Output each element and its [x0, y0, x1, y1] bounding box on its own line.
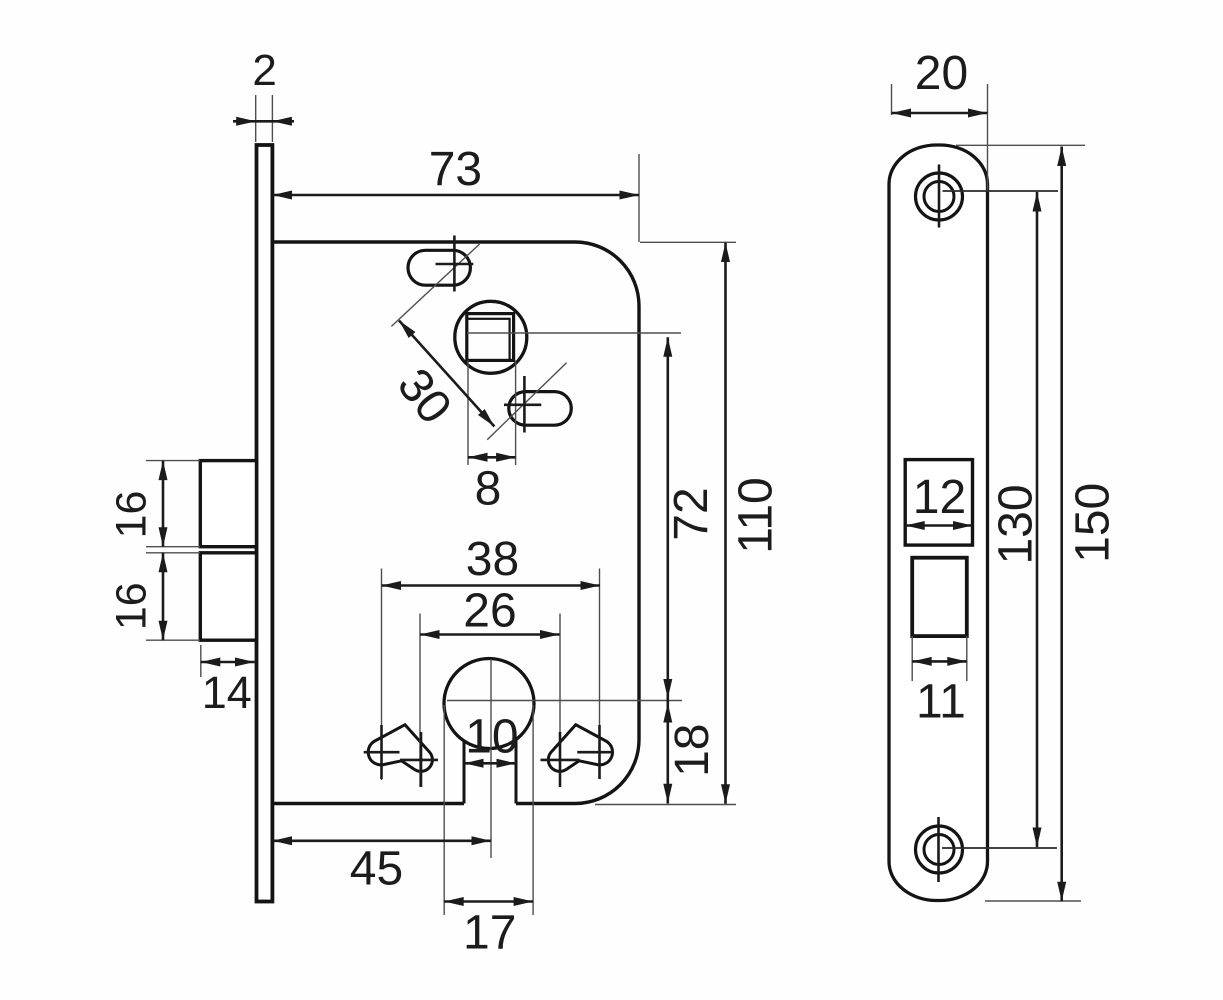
svg-text:8: 8 — [475, 463, 502, 516]
svg-text:130: 130 — [989, 484, 1042, 564]
svg-text:45: 45 — [350, 842, 403, 895]
svg-text:26: 26 — [463, 584, 516, 637]
svg-text:12: 12 — [913, 471, 966, 524]
svg-text:14: 14 — [202, 667, 252, 718]
svg-text:11: 11 — [916, 675, 966, 728]
svg-text:18: 18 — [666, 724, 719, 777]
svg-text:17: 17 — [463, 906, 516, 959]
svg-text:16: 16 — [108, 582, 156, 630]
svg-text:2: 2 — [252, 46, 276, 95]
svg-text:150: 150 — [1067, 483, 1120, 563]
svg-text:110: 110 — [730, 477, 783, 554]
svg-text:38: 38 — [466, 533, 519, 586]
svg-text:72: 72 — [665, 487, 718, 540]
svg-text:73: 73 — [429, 143, 482, 196]
svg-text:20: 20 — [915, 47, 968, 100]
svg-text:16: 16 — [108, 491, 156, 539]
svg-text:10: 10 — [465, 711, 518, 764]
svg-text:30: 30 — [387, 359, 462, 434]
